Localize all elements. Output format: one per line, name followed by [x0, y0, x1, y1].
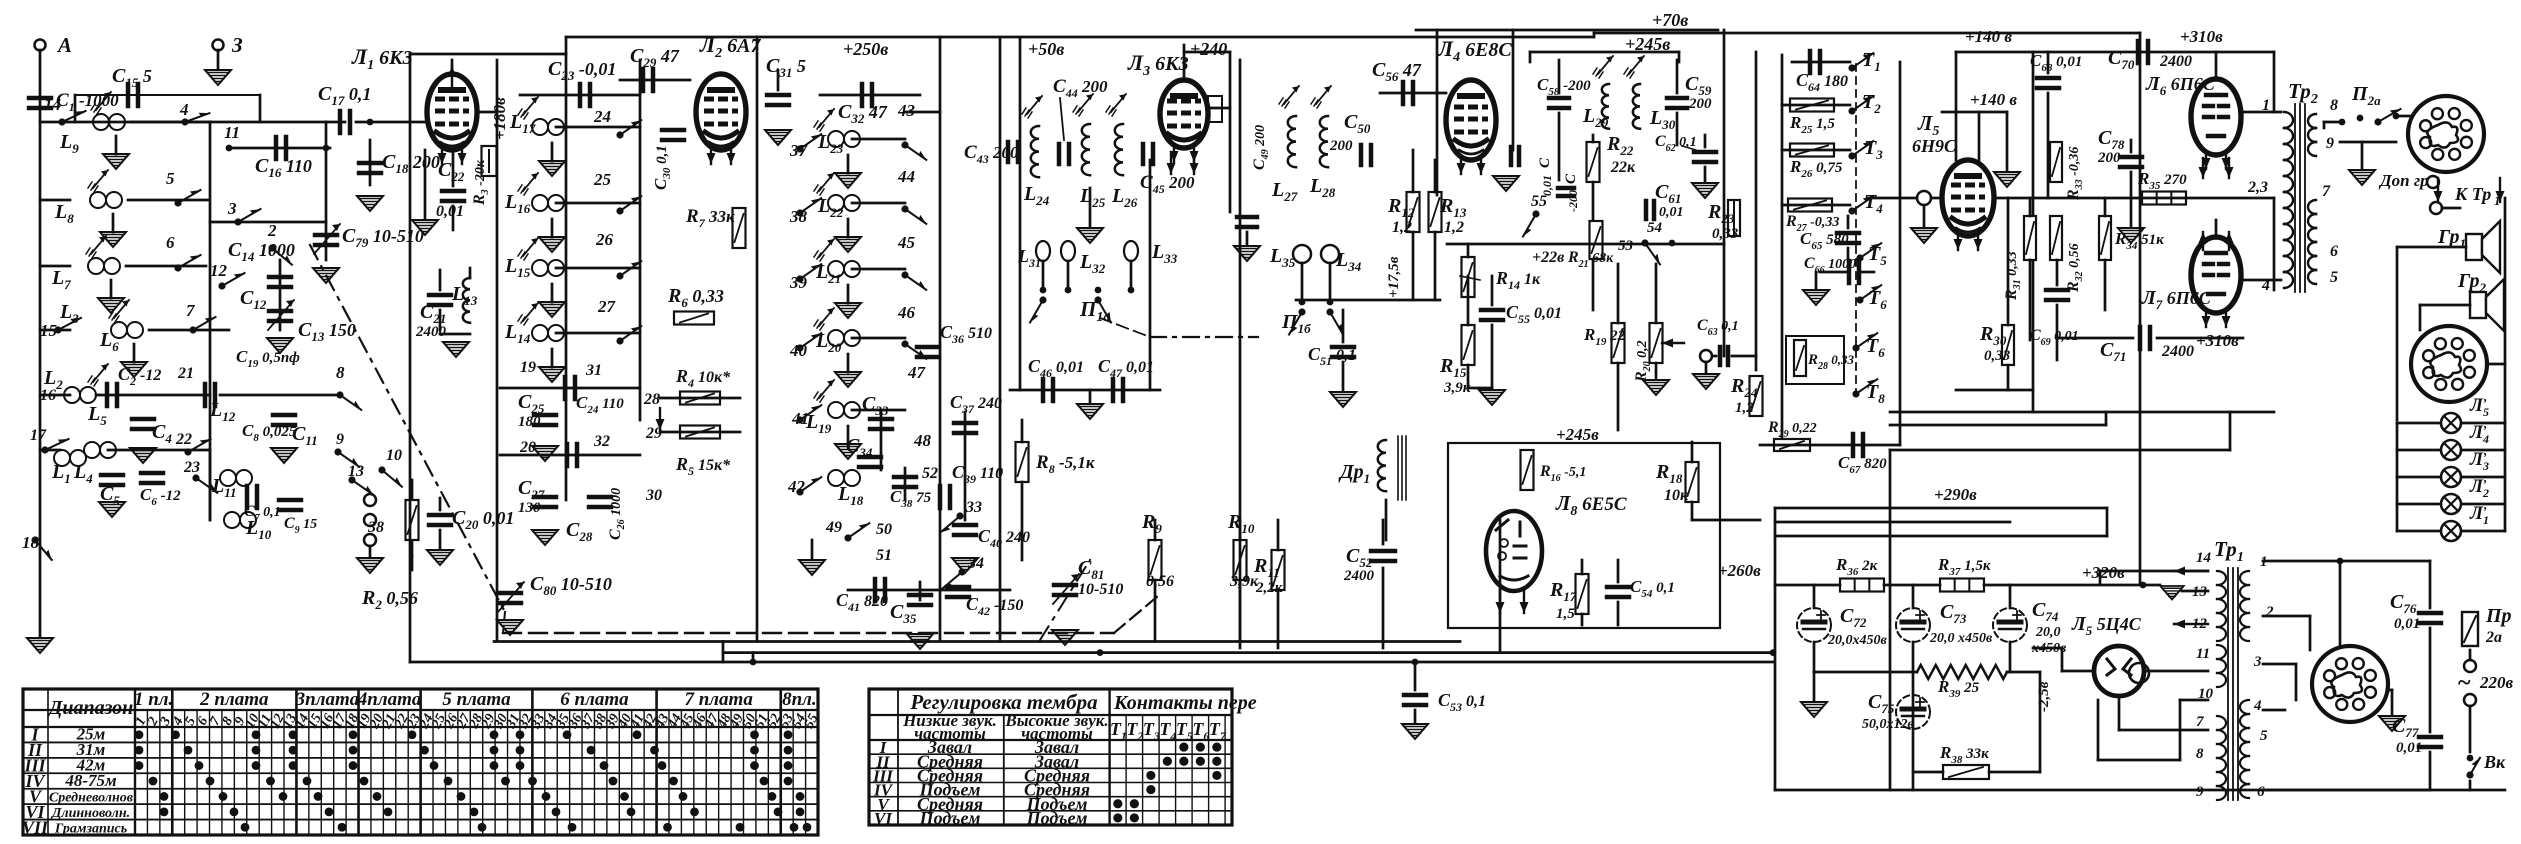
svg-text:Подъем: Подъем	[919, 808, 981, 828]
svg-text:-2,5в: -2,5в	[2036, 681, 2052, 712]
svg-text:Средневолнов: Средневолнов	[49, 790, 134, 805]
svg-text:22к: 22к	[1610, 159, 1636, 176]
svg-text:R31 0,33: R31 0,33	[2003, 251, 2023, 301]
svg-text:+310в: +310в	[2196, 331, 2239, 350]
svg-text:П2а: П2а	[2351, 83, 2381, 108]
svg-text:Т4: Т4	[1864, 191, 1883, 216]
svg-text:1,5: 1,5	[1556, 606, 1575, 622]
svg-text:3: 3	[2253, 654, 2262, 670]
svg-text:С2 -12: С2 -12	[118, 364, 161, 388]
svg-text:С13 150: С13 150	[298, 319, 356, 344]
svg-text:С: С	[1537, 157, 1553, 168]
svg-text:С67 820: С67 820	[1838, 453, 1887, 476]
svg-text:10: 10	[386, 447, 402, 464]
svg-text:5: 5	[166, 169, 175, 188]
svg-text:31: 31	[585, 362, 602, 379]
svg-text:С15 5: С15 5	[112, 65, 152, 90]
svg-text:С12: С12	[240, 287, 267, 312]
svg-text:С31 5: С31 5	[766, 55, 806, 80]
svg-text:С61: С61	[1655, 181, 1681, 206]
svg-text:7: 7	[2196, 714, 2204, 730]
svg-text:С58 -200: С58 -200	[1537, 75, 1591, 98]
svg-text:R37 1,5к: R37 1,5к	[1937, 555, 1991, 578]
svg-text:12: 12	[210, 261, 228, 280]
svg-text:L16: L16	[504, 191, 531, 216]
svg-text:L35: L35	[1269, 245, 1296, 270]
svg-text:L27: L27	[1271, 179, 1298, 204]
svg-text:2,3: 2,3	[2247, 179, 2268, 196]
svg-text:С25: С25	[518, 391, 545, 416]
svg-text:20,0х450в: 20,0х450в	[1827, 633, 1888, 648]
svg-text:50,0х12в: 50,0х12в	[1862, 717, 1915, 732]
svg-text:5: 5	[2330, 269, 2338, 286]
svg-text:С49 200: С49 200	[1251, 125, 1271, 170]
svg-text:52: 52	[922, 465, 938, 482]
svg-text:С54 0,1: С54 0,1	[1630, 577, 1675, 600]
svg-text:С37 240: С37 240	[950, 392, 1002, 416]
svg-text:Тр2: Тр2	[2288, 79, 2318, 107]
svg-text:1: 1	[2262, 97, 2270, 114]
svg-text:L4: L4	[73, 461, 93, 486]
svg-text:С26 1000: С26 1000	[607, 488, 627, 540]
svg-text:С42 -150: С42 -150	[966, 594, 1023, 618]
svg-text:С53 0,1: С53 0,1	[1438, 690, 1486, 714]
svg-text:48-75м: 48-75м	[64, 771, 117, 790]
svg-text:С9 15: С9 15	[284, 515, 317, 536]
svg-text:Т6: Т6	[1868, 287, 1887, 312]
svg-text:4: 4	[2253, 698, 2262, 714]
svg-text:R35 270: R35 270	[2137, 169, 2187, 192]
svg-text:Подъем: Подъем	[1026, 808, 1088, 828]
svg-text:200: 200	[1329, 138, 1353, 154]
svg-text:L9: L9	[59, 131, 79, 156]
svg-text:+260в: +260в	[1718, 561, 1761, 580]
svg-text:L19: L19	[805, 411, 832, 436]
svg-text:1,2: 1,2	[1444, 219, 1464, 236]
svg-text:47: 47	[907, 363, 927, 382]
svg-text:С45 200: С45 200	[1140, 172, 1195, 196]
svg-text:L32: L32	[1079, 251, 1106, 276]
svg-text:С41 820: С41 820	[836, 590, 888, 614]
svg-text:С14 1000: С14 1000	[228, 239, 295, 264]
svg-text:26: 26	[595, 230, 614, 249]
svg-text:20: 20	[519, 439, 536, 456]
svg-text:46: 46	[897, 303, 916, 322]
svg-text:L26: L26	[1111, 185, 1138, 210]
svg-text:+245в: +245в	[1556, 425, 1599, 444]
svg-text:С73: С73	[1940, 601, 1967, 626]
svg-text:С24 110: С24 110	[576, 393, 624, 416]
svg-text:Контакты пере: Контакты пере	[1113, 692, 1257, 714]
svg-text:L24: L24	[1023, 183, 1050, 208]
svg-text:Л3 6К3: Л3 6К3	[1127, 50, 1189, 79]
svg-text:С71: С71	[2100, 339, 2126, 364]
svg-text:24: 24	[593, 107, 611, 126]
svg-text:Л5: Л5	[1917, 111, 1939, 139]
svg-text:R27 -0,33: R27 -0,33	[1785, 213, 1839, 234]
svg-text:С36 510: С36 510	[940, 322, 992, 346]
svg-text:Т1: Т1	[1862, 49, 1881, 74]
svg-text:П1б: П1б	[1281, 311, 1311, 336]
svg-text:+290в: +290в	[1934, 485, 1977, 504]
svg-text:L3: L3	[59, 301, 79, 326]
svg-text:С4: С4	[152, 421, 172, 446]
svg-text:З: З	[231, 33, 243, 57]
svg-text:С68 0,01: С68 0,01	[2030, 51, 2082, 74]
svg-text:4: 4	[179, 100, 189, 119]
svg-text:28: 28	[643, 391, 660, 408]
svg-text:220в: 220в	[2479, 673, 2514, 692]
svg-text:0,56: 0,56	[1146, 573, 1174, 590]
svg-text:6: 6	[2330, 243, 2338, 260]
svg-text:0,01: 0,01	[436, 203, 464, 220]
svg-text:L12: L12	[209, 399, 236, 424]
svg-text:10-510: 10-510	[1078, 581, 1123, 598]
svg-text:R26 0,75: R26 0,75	[1789, 157, 1843, 180]
svg-text:19: 19	[520, 359, 536, 376]
svg-text:Т5: Т5	[1868, 243, 1887, 268]
svg-text:R5 15к*: R5 15к*	[675, 454, 731, 478]
svg-text:С46 0,01: С46 0,01	[1028, 356, 1084, 380]
svg-text:Длинноволн.: Длинноволн.	[50, 806, 130, 821]
svg-text:R32 0,56: R32 0,56	[2065, 243, 2085, 293]
svg-text:R22: R22	[1606, 133, 1634, 158]
svg-text:1: 1	[2494, 193, 2501, 208]
svg-text:Л8 6Е5С: Л8 6Е5С	[1555, 491, 1627, 519]
svg-text:~: ~	[2458, 670, 2471, 696]
svg-text:21: 21	[177, 365, 194, 382]
svg-text:Л2 6А7: Л2 6А7	[699, 32, 761, 61]
svg-text:2400: 2400	[1343, 568, 1375, 584]
svg-text:Л1 6К3: Л1 6К3	[351, 44, 413, 73]
svg-text:0,01: 0,01	[1659, 205, 1684, 220]
svg-text:С38 75: С38 75	[890, 487, 932, 510]
svg-text:L30: L30	[1649, 107, 1676, 132]
svg-text:1,2: 1,2	[1735, 400, 1754, 416]
svg-text:39: 39	[789, 273, 808, 292]
svg-text:7: 7	[186, 301, 196, 320]
svg-text:2: 2	[267, 221, 277, 240]
svg-text:49: 49	[825, 519, 842, 536]
svg-text:43: 43	[897, 101, 916, 120]
svg-text:R18: R18	[1655, 461, 1683, 486]
svg-text:С55 0,01: С55 0,01	[1506, 302, 1562, 326]
svg-text:11: 11	[2196, 646, 2210, 662]
svg-text:55: 55	[1531, 193, 1547, 210]
svg-text:+70в: +70в	[1652, 10, 1688, 30]
svg-text:С33: С33	[862, 393, 889, 418]
svg-text:R25 1,5: R25 1,5	[1789, 113, 1835, 136]
svg-text:Пр: Пр	[2485, 605, 2512, 627]
svg-text:+320в: +320в	[2082, 563, 2125, 582]
svg-text:А: А	[56, 33, 72, 57]
svg-text:L25: L25	[1079, 185, 1106, 210]
svg-text:2 плата: 2 плата	[199, 689, 269, 710]
svg-text:53: 53	[1618, 238, 1634, 254]
svg-text:8: 8	[336, 363, 345, 382]
svg-text:9: 9	[336, 431, 344, 448]
svg-text:0,01: 0,01	[2396, 740, 2422, 756]
svg-text:3,9к: 3,9к	[1443, 380, 1471, 396]
svg-text:9: 9	[2196, 784, 2204, 800]
svg-text:С16 110: С16 110	[255, 155, 312, 180]
svg-text:С62 0,1: С62 0,1	[1655, 133, 1697, 154]
svg-text:С44 200: С44 200	[1053, 76, 1108, 100]
svg-text:С51 0,1: С51 0,1	[1308, 344, 1356, 368]
svg-text:2400: 2400	[2161, 343, 2194, 360]
svg-text:L5: L5	[87, 403, 107, 428]
svg-text:С28: С28	[566, 519, 593, 544]
svg-text:L28: L28	[1309, 175, 1336, 200]
svg-text:14: 14	[44, 95, 61, 114]
svg-text:L6: L6	[99, 329, 119, 354]
svg-text:С8 0,025: С8 0,025	[242, 421, 297, 444]
svg-text:20,0: 20,0	[2035, 625, 2061, 640]
svg-text:С74: С74	[2032, 599, 2059, 624]
svg-text:L7: L7	[51, 267, 71, 292]
svg-text:0,33: 0,33	[1712, 226, 1739, 242]
svg-text:Тр1: Тр1	[2214, 537, 2244, 565]
svg-text:6Н9С: 6Н9С	[1912, 136, 1957, 156]
svg-text:25: 25	[593, 170, 612, 189]
svg-text:R17: R17	[1549, 579, 1577, 604]
svg-text:VI: VI	[874, 809, 893, 828]
svg-text:L34: L34	[1335, 249, 1362, 274]
svg-text:С6 -12: С6 -12	[140, 485, 181, 508]
svg-text:1 пл.: 1 пл.	[134, 689, 173, 710]
svg-text:L21: L21	[815, 261, 841, 286]
svg-text:23: 23	[183, 459, 200, 476]
svg-text:R16 -5,1: R16 -5,1	[1539, 463, 1586, 484]
svg-text:+140 в: +140 в	[1965, 27, 2012, 46]
svg-text:22: 22	[175, 431, 192, 448]
svg-text:10к: 10к	[1664, 487, 1689, 504]
svg-text:С50: С50	[1344, 111, 1371, 136]
svg-text:8: 8	[2196, 746, 2204, 762]
svg-text:+22в: +22в	[1532, 249, 1564, 266]
svg-text:4: 4	[2261, 277, 2270, 294]
svg-text:С65 580: С65 580	[1800, 229, 1849, 252]
svg-text:37: 37	[789, 141, 809, 160]
svg-text:17: 17	[30, 427, 47, 444]
svg-text:R9: R9	[1141, 511, 1162, 536]
svg-text:,: ,	[2483, 470, 2487, 485]
svg-text:1,2: 1,2	[1392, 219, 1412, 236]
svg-text:С39 110: С39 110	[952, 462, 1003, 486]
svg-text:,: ,	[2483, 416, 2487, 431]
svg-text:+17,5в: +17,5в	[1386, 256, 1402, 298]
svg-text:3плата: 3плата	[295, 689, 360, 710]
svg-text:+240: +240	[1190, 39, 1227, 59]
svg-text:6: 6	[2257, 784, 2265, 800]
svg-text:38: 38	[789, 207, 808, 226]
svg-text:40: 40	[789, 341, 808, 360]
svg-text:33: 33	[965, 499, 982, 516]
svg-text:0,01: 0,01	[2394, 616, 2420, 632]
svg-text:38: 38	[367, 519, 384, 536]
svg-text:34: 34	[967, 555, 984, 572]
svg-text:R4 10к*: R4 10к*	[675, 366, 731, 390]
svg-text:11: 11	[224, 123, 240, 142]
svg-text:Доп гр: Доп гр	[2378, 171, 2429, 190]
svg-text:Л4 6Е8С: Л4 6Е8С	[1437, 36, 1512, 65]
svg-text:Т2: Т2	[1862, 91, 1881, 116]
svg-text:9: 9	[2326, 135, 2334, 152]
svg-text:Т6: Т6	[1866, 335, 1885, 360]
svg-text:+180в: +180в	[490, 97, 509, 140]
svg-text:51: 51	[876, 547, 892, 564]
svg-text:-200: -200	[1566, 190, 1580, 212]
svg-text:С34: С34	[846, 435, 873, 460]
svg-text:Т8: Т8	[1866, 381, 1885, 406]
svg-text:С78: С78	[2098, 127, 2125, 152]
svg-text:45: 45	[897, 233, 916, 252]
svg-text:С59: С59	[1685, 73, 1712, 98]
svg-text:2400: 2400	[415, 324, 447, 340]
svg-text:R33 -0,36: R33 -0,36	[2065, 147, 2085, 201]
svg-text:L33: L33	[1151, 241, 1178, 266]
svg-text:54: 54	[1647, 220, 1663, 236]
svg-text:Диапазон: Диапазон	[47, 697, 134, 719]
svg-text:Гр2: Гр2	[2457, 270, 2487, 295]
svg-text:2: 2	[2265, 604, 2274, 620]
svg-text:3: 3	[227, 199, 237, 218]
svg-text:С17 0,1: С17 0,1	[318, 83, 371, 108]
svg-text:С43 200: С43 200	[964, 142, 1019, 166]
svg-text:,: ,	[2483, 389, 2487, 404]
svg-text:44: 44	[897, 167, 915, 186]
svg-text:14: 14	[2196, 550, 2212, 566]
svg-text:+140 в: +140 в	[1970, 90, 2017, 109]
svg-text:R21 68к: R21 68к	[1567, 249, 1614, 270]
svg-text:200: 200	[2097, 150, 2121, 166]
svg-text:30: 30	[645, 487, 662, 504]
svg-text:6: 6	[166, 233, 175, 252]
svg-text:7 плата: 7 плата	[684, 689, 753, 710]
svg-text:27: 27	[597, 297, 617, 316]
svg-text:К Тр: К Тр	[2454, 184, 2491, 204]
svg-text:R36 2к: R36 2к	[1835, 555, 1878, 578]
svg-text:0,33: 0,33	[1984, 348, 2011, 364]
svg-text:R29 0,22: R29 0,22	[1767, 419, 1817, 440]
svg-text:16: 16	[40, 387, 56, 404]
svg-text:С72: С72	[1840, 605, 1867, 630]
svg-text:Т3: Т3	[1864, 137, 1883, 162]
svg-text:R7 33к: R7 33к	[685, 206, 735, 230]
svg-text:С63 0,1: С63 0,1	[1697, 317, 1739, 338]
svg-text:R14 1к: R14 1к	[1495, 268, 1541, 292]
svg-text:R8 -5,1к: R8 -5,1к	[1035, 452, 1095, 476]
svg-text:50: 50	[876, 521, 892, 538]
svg-text:6 плата: 6 плата	[560, 689, 629, 710]
svg-text:5 плата: 5 плата	[442, 689, 511, 710]
svg-text:VII: VII	[22, 817, 49, 837]
svg-text:R13: R13	[1439, 195, 1467, 220]
svg-text:С79 10-510: С79 10-510	[342, 225, 424, 250]
svg-text:8пл.: 8пл.	[782, 689, 817, 710]
svg-text:32: 32	[593, 433, 610, 450]
svg-text:L15: L15	[504, 255, 531, 280]
svg-text:С19 0,5пф: С19 0,5пф	[236, 347, 300, 370]
svg-text:20,0 х450в: 20,0 х450в	[1929, 631, 1993, 646]
svg-text:С81: С81	[1078, 557, 1104, 582]
svg-text:С80 10-510: С80 10-510	[530, 573, 612, 598]
svg-text:2400: 2400	[2159, 53, 2192, 70]
svg-text:8: 8	[2330, 97, 2338, 114]
svg-text:Л5 5Ц4С: Л5 5Ц4С	[2071, 613, 2142, 638]
svg-text:+310в: +310в	[2180, 27, 2223, 46]
svg-text:41: 41	[791, 409, 809, 428]
svg-text:С76: С76	[2390, 591, 2417, 616]
svg-text:7: 7	[2322, 183, 2331, 200]
svg-text:С29 47: С29 47	[630, 45, 680, 70]
svg-text:,: ,	[2483, 497, 2487, 512]
svg-text:200: 200	[1688, 96, 1712, 112]
svg-text:4плата: 4плата	[357, 689, 422, 710]
svg-text:L8: L8	[54, 201, 74, 226]
svg-text:,: ,	[2483, 443, 2487, 458]
svg-text:2а: 2а	[2485, 629, 2502, 646]
svg-text:Др1: Др1	[1338, 461, 1370, 486]
svg-text:48: 48	[913, 431, 932, 450]
svg-text:L14: L14	[504, 321, 531, 346]
svg-text:С47 0,01: С47 0,01	[1098, 356, 1154, 380]
svg-text:+50в: +50в	[1028, 39, 1064, 59]
svg-text:С: С	[1563, 173, 1579, 184]
svg-text:С64 180: С64 180	[1796, 70, 1848, 94]
svg-text:Грамзапись: Грамзапись	[54, 821, 127, 836]
svg-text:5: 5	[2260, 728, 2268, 744]
svg-text:С23 -0,01: С23 -0,01	[548, 58, 616, 83]
svg-text:С30 0,1: С30 0,1	[651, 145, 673, 190]
svg-text:Вк: Вк	[2483, 752, 2506, 772]
svg-text:+250в: +250в	[843, 39, 888, 59]
svg-text:R6 0,33: R6 0,33	[667, 285, 724, 310]
svg-text:R38 33к: R38 33к	[1939, 743, 1989, 766]
svg-text:L11: L11	[211, 475, 237, 500]
svg-text:R28 0,33: R28 0,33	[1807, 352, 1855, 372]
